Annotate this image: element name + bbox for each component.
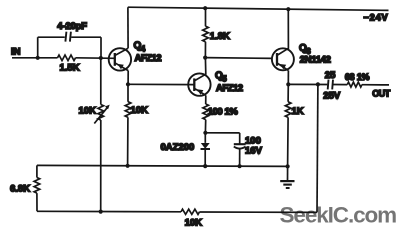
svg-text:OUT: OUT (372, 88, 391, 98)
svg-text:1.8K: 1.8K (210, 31, 230, 42)
transistor Q6 base bar (276, 53, 278, 66)
node: junction B (1.5K, cap, pot, Q4 base) (99, 56, 103, 60)
resistor R 100 1% (Q5 emitter) (203, 95, 209, 132)
wire: feedback vertical from output node (316, 84, 319, 212)
zener diode 0AZ200 (204, 133, 206, 143)
svg-text:2N1142: 2N1142 (300, 54, 331, 65)
wire: node C to 100uF cap branch (205, 132, 239, 134)
wire: capacitor branch right vertical down to node B (100, 37, 102, 58)
wire: Q5 collector node to Q6 base (205, 57, 272, 60)
resistor R 10K (Q4 emitter load) (125, 84, 131, 166)
svg-text:0AZ200: 0AZ200 (161, 142, 195, 153)
transistor Q6 emitter arrow (PNP) (280, 64, 287, 69)
capacitor C 25uF/25V plates (328, 80, 333, 90)
transistor Q4 emitter arrow (PNP) (117, 64, 124, 69)
wire: Q4 emitter down to junction (127, 71, 129, 85)
node: junction Q6 emitter / 1K / output (286, 82, 290, 86)
wire: junction to Q5 base (128, 83, 194, 85)
node: junction C (100R / zener / cap branch) (203, 131, 207, 135)
wire: capacitor branch left vertical (37, 37, 39, 58)
svg-text:AFZ12: AFZ12 (216, 83, 243, 94)
transistor Q5 circle (188, 73, 210, 95)
resistor R 6.8K (34, 165, 40, 211)
transistor Q4 collector lead (115, 48, 128, 55)
wire: Q4 collector to rail (127, 7, 129, 48)
transistor Q4 base bar (114, 53, 116, 66)
wire: cap to 68R resistor (333, 84, 347, 86)
svg-text:25V: 25V (323, 90, 341, 101)
wire: capacitor branch top horizontal right (71, 36, 101, 38)
resistor R 1K (Q6 emitter load) (285, 84, 291, 166)
wire: Q6 emitter down to output node (287, 71, 289, 85)
svg-text:16V: 16V (245, 146, 263, 157)
transistor Q6 collector lead (277, 9, 288, 55)
node: junction zener bottom on ground rail (203, 164, 207, 168)
resistor R 68 1% (347, 82, 362, 87)
node: junction output / feedback (316, 82, 320, 86)
svg-text:IN: IN (11, 47, 21, 58)
wire: mid ground rail (37, 165, 288, 166)
wire: emitter node to output cap (288, 83, 327, 85)
transistor Q5 emitter arrow (PNP) (197, 89, 204, 94)
svg-text:1K: 1K (292, 106, 304, 117)
potentiometer 10K (variable) body (98, 58, 104, 212)
capacitor C 100uF/16V (239, 133, 241, 144)
node: junction 1.8K top on rail (203, 6, 207, 10)
wire: top -24V rail (128, 7, 389, 10)
wire: bottom feedback rail (37, 211, 317, 212)
transistor Q5 base bar (193, 78, 195, 91)
node: junction Q4 emitter / Q5 base / 10K (126, 82, 130, 86)
node: junction 100uF bottom on ground rail (238, 164, 242, 168)
svg-text:−24V: −24V (364, 12, 389, 22)
potentiometer 10K arrow (94, 107, 107, 123)
wire: resistor to OUT terminal (362, 84, 389, 86)
svg-text:SeekIC.com: SeekIC.com (280, 202, 397, 227)
svg-text:25: 25 (325, 70, 336, 81)
svg-text:10K: 10K (79, 106, 97, 117)
ground symbol (287, 166, 289, 181)
capacitor C 4-20pF trimmer plates (65, 32, 71, 42)
svg-text:100 1%: 100 1% (208, 106, 239, 117)
transistor Q5 emitter lead (194, 88, 206, 95)
svg-text:10K: 10K (131, 105, 149, 116)
svg-text:6.8K: 6.8K (10, 184, 30, 195)
wire: capacitor branch top horizontal left (38, 36, 65, 38)
svg-text:68 1%: 68 1% (345, 72, 370, 82)
node: junction Q5 collector / 1.8K / Q6 base (203, 56, 207, 60)
node: junction pot bottom on feedback rail (99, 210, 103, 214)
transistor Q6 emitter lead (277, 63, 288, 71)
transistor Q4 emitter lead (115, 63, 128, 71)
resistor R 1.8K (203, 8, 209, 57)
transistor Q5 collector lead (194, 58, 206, 81)
node: junction Q6 collector on rail (286, 7, 290, 11)
transistor Q6 circle (272, 48, 294, 70)
transistor Q4 circle (109, 48, 131, 70)
node: junction 1K bottom / ground (286, 164, 290, 168)
resistor R 10K (feedback) (181, 209, 200, 214)
resistor R 1.5K (58, 55, 76, 61)
svg-text:AFZ12: AFZ12 (135, 53, 162, 64)
node: junction input / cap branch (36, 56, 40, 60)
svg-text:10K: 10K (185, 217, 203, 228)
svg-text:1.5K: 1.5K (60, 63, 80, 74)
node: junction 10K bottom on ground rail (126, 164, 130, 168)
svg-text:4-20pF: 4-20pF (57, 20, 87, 31)
wire: IN lead to Q4 base (12, 57, 115, 60)
